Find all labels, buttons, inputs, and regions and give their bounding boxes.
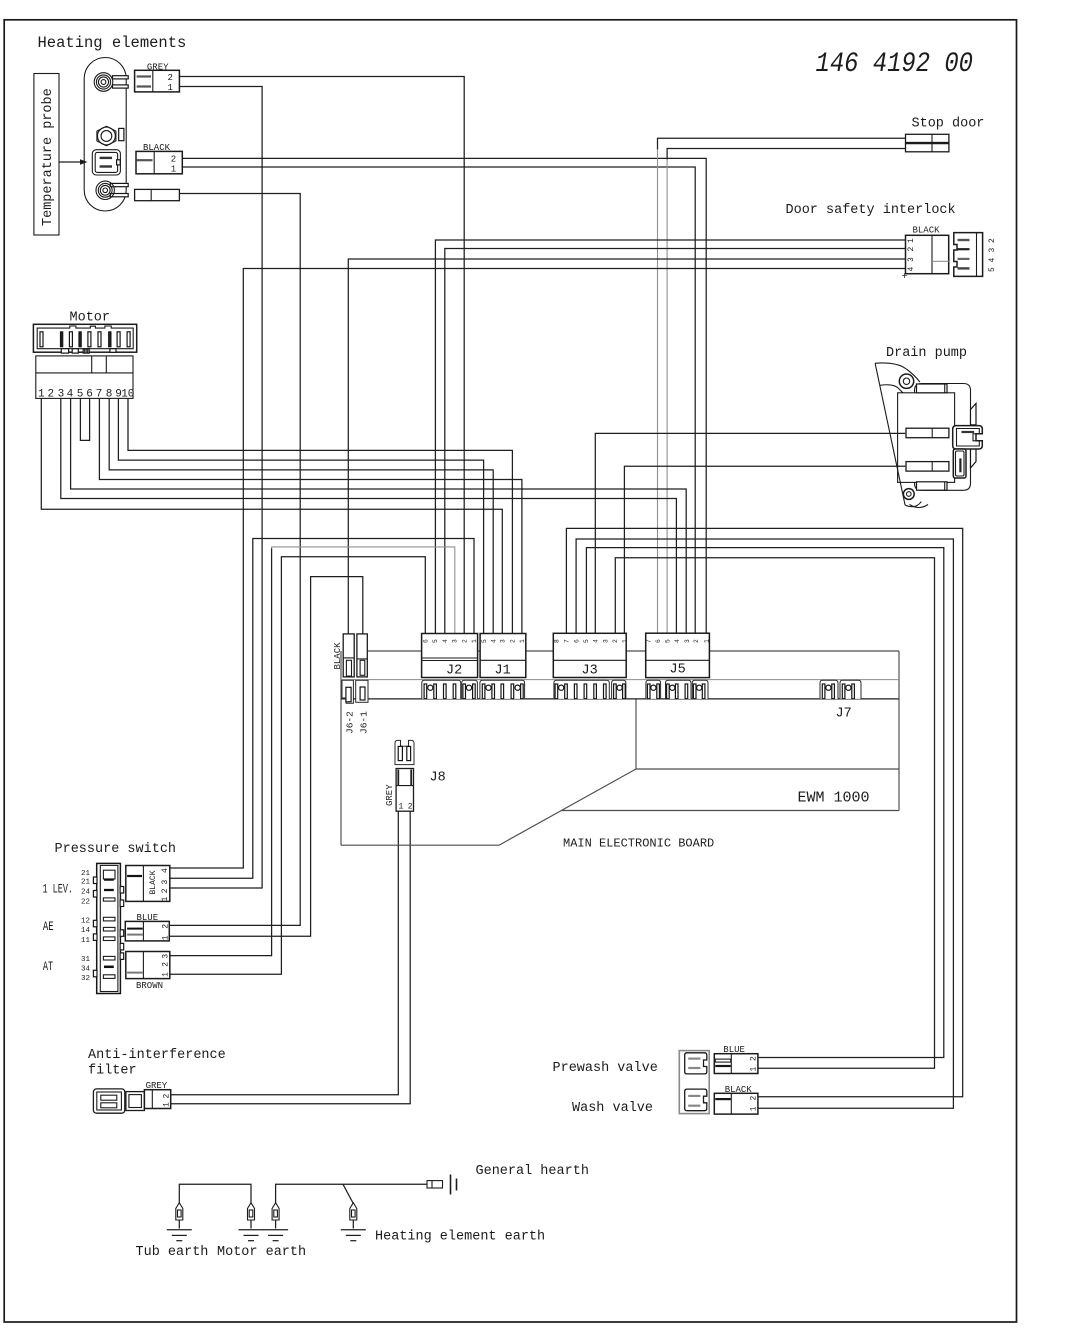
svg-text:2: 2 <box>750 1056 759 1061</box>
svg-text:22: 22 <box>81 898 90 906</box>
footprint J6-2 <box>342 680 353 703</box>
filter body <box>93 1089 124 1113</box>
board EWM strip bottom edge <box>561 810 899 812</box>
svg-text:6: 6 <box>86 388 93 400</box>
prewash BLUE connector <box>714 1054 758 1074</box>
svg-text:2: 2 <box>408 803 413 812</box>
svg-text:Motor: Motor <box>70 311 111 326</box>
svg-text:3: 3 <box>684 639 691 643</box>
footprint cluster under J2 right <box>462 680 478 699</box>
svg-text:1: 1 <box>471 639 478 643</box>
svg-text:12: 12 <box>81 917 90 925</box>
footprint cluster under J7 right <box>840 680 861 699</box>
drain pump blade <box>875 363 905 505</box>
wire heating GREY pin1 to pressure switch BLACK pin2 <box>170 87 262 889</box>
wire stop door lower to J5 pin5 <box>667 149 905 161</box>
svg-text:Drain pump: Drain pump <box>886 346 967 361</box>
temperature probe box <box>34 74 59 236</box>
svg-text:2: 2 <box>171 155 176 165</box>
svg-text:1: 1 <box>161 897 170 902</box>
heating connector BLACK <box>136 151 182 173</box>
footprint cluster under J5 middle <box>666 680 692 699</box>
svg-text:4: 4 <box>161 868 170 873</box>
wire motor pin3 to J5 pin4 <box>61 398 677 633</box>
wire J3 pin5 to prewash valve BLUE pin2 <box>586 548 943 1058</box>
svg-text:146 4192 00: 146 4192 00 <box>816 49 974 80</box>
filter middle connector <box>126 1092 144 1111</box>
svg-text:14: 14 <box>81 927 91 935</box>
wire heating BLACK pin1 to J5 pin2 <box>182 167 695 633</box>
svg-text:2: 2 <box>750 1096 759 1101</box>
svg-text:1: 1 <box>750 1106 759 1111</box>
footprint cluster under J1 <box>480 680 525 699</box>
board top edge segments <box>368 650 422 652</box>
general hearth plug <box>427 1181 443 1188</box>
svg-text:J1: J1 <box>495 664 511 679</box>
svg-text:5: 5 <box>432 639 439 643</box>
wire stop door lower vertical grey <box>666 159 668 633</box>
drain pump bottom blade tip <box>905 502 921 507</box>
svg-text:3: 3 <box>162 954 171 959</box>
svg-text:Temperature probe: Temperature probe <box>41 88 56 226</box>
board BLACK connector J6-2 top <box>343 634 354 677</box>
svg-text:1: 1 <box>907 238 916 243</box>
svg-text:1 LEV.: 1 LEV. <box>43 882 74 897</box>
wire motor pins 5-6 jumper loop <box>80 398 89 440</box>
svg-text:34: 34 <box>81 965 91 973</box>
svg-text:4: 4 <box>67 388 74 400</box>
wire door interlock pin2 to J2 pin4 <box>445 249 906 634</box>
svg-text:1: 1 <box>399 803 404 812</box>
wire door interlock pin4 to pressure switch BLACK pin4 <box>170 269 906 869</box>
wire motor pin8 to J1 pin4 <box>109 398 493 633</box>
valve assembly outer shell <box>679 1051 709 1114</box>
motor plug bottom tabs <box>61 349 68 353</box>
earth terminal tub <box>176 1203 183 1220</box>
motor plug pins <box>40 332 43 347</box>
svg-text:1: 1 <box>38 388 45 400</box>
footprint cluster under J5 left <box>646 680 661 699</box>
svg-text:AT: AT <box>43 959 53 974</box>
wire drain pump lower tab to J3 pin1 <box>624 466 905 633</box>
board outline left edge <box>340 651 342 845</box>
wire motor pin10 to J1 pin2 <box>128 398 512 633</box>
wire stop door upper to J5 pin6 <box>658 138 906 150</box>
svg-text:3: 3 <box>602 639 609 643</box>
svg-text:J7: J7 <box>836 707 852 722</box>
drain pump upper tab <box>906 428 949 438</box>
heating top terminal rings <box>94 73 113 92</box>
svg-text:7: 7 <box>646 639 653 643</box>
svg-text:Pressure switch: Pressure switch <box>55 842 177 857</box>
connector J5 <box>646 633 710 677</box>
prewash valve socket <box>685 1053 707 1074</box>
wire door interlock pin1 to J2 pin5 <box>435 240 905 634</box>
diagonal drop to heating element earth terminal <box>343 1184 353 1203</box>
pin row bottom edge <box>341 698 899 700</box>
drain pump top bolt <box>899 374 913 388</box>
svg-text:7: 7 <box>96 388 103 400</box>
pressure switch contact slots <box>103 870 115 879</box>
pressure switch side lugs <box>93 877 97 884</box>
svg-text:2: 2 <box>168 73 173 83</box>
svg-text:5: 5 <box>665 639 672 643</box>
svg-text:1: 1 <box>162 935 171 940</box>
connector J1 <box>480 634 526 678</box>
svg-text:24: 24 <box>81 889 91 897</box>
hex nut <box>97 126 116 146</box>
svg-text:6: 6 <box>655 639 662 643</box>
wire motor pin1 to J1 pin3 <box>41 398 502 633</box>
stop door connector <box>906 134 949 142</box>
svg-text:2: 2 <box>161 888 170 893</box>
drain pump body square <box>898 393 955 483</box>
svg-text:1: 1 <box>519 639 526 643</box>
wire J3 pin6 to wash valve BLACK pin1 <box>576 539 953 1108</box>
pressure BROWN connector <box>126 952 170 979</box>
svg-text:8: 8 <box>106 388 113 400</box>
J8 footprint <box>395 740 414 764</box>
svg-text:General hearth: General hearth <box>476 1164 589 1179</box>
svg-text:6: 6 <box>573 639 580 643</box>
ground symbol motor 2 <box>263 1229 288 1231</box>
svg-text:Wash valve: Wash valve <box>572 1101 653 1116</box>
wash valve socket <box>685 1089 707 1111</box>
footprint cluster under J3 right <box>612 680 626 699</box>
svg-text:5: 5 <box>583 639 590 643</box>
pressure switch body inner <box>100 865 118 991</box>
footprint cluster under J7 left <box>820 680 838 699</box>
temperature probe arrow <box>59 161 81 163</box>
wire heating GREY pin2 to J2 pin2 <box>179 77 464 634</box>
svg-text:1: 1 <box>621 639 628 643</box>
drain pump bottom mounting tab <box>917 482 948 490</box>
svg-text:21: 21 <box>81 870 91 878</box>
svg-text:32: 32 <box>81 975 90 983</box>
ground symbol heating element <box>341 1229 366 1231</box>
svg-text:Prewash valve: Prewash valve <box>553 1061 658 1076</box>
earth terminal motor <box>248 1203 255 1220</box>
svg-text:BLACK: BLACK <box>149 870 158 894</box>
svg-text:10: 10 <box>121 388 134 400</box>
svg-text:4: 4 <box>442 639 449 643</box>
footprint cluster under J2 left <box>422 680 461 699</box>
svg-text:7: 7 <box>564 639 571 643</box>
svg-text:2: 2 <box>693 639 700 643</box>
drain pump top mounting tab <box>917 384 948 393</box>
svg-text:2: 2 <box>988 238 997 243</box>
svg-text:2: 2 <box>48 388 55 400</box>
wire motor pin9 to J1 pin5 <box>118 398 483 633</box>
svg-text:Heating element earth: Heating element earth <box>375 1230 545 1245</box>
earth terminal motor 2 <box>272 1203 279 1220</box>
board outline diagonal <box>499 769 636 845</box>
ground bus motor2-hearth <box>276 1184 427 1203</box>
svg-text:5: 5 <box>481 639 488 643</box>
svg-text:GREY: GREY <box>385 784 395 806</box>
pressure switch body outer <box>97 863 121 993</box>
svg-text:J3: J3 <box>582 664 598 679</box>
J8 GREY connector <box>396 769 413 812</box>
svg-text:J8: J8 <box>430 771 446 786</box>
pressure BLUE connector <box>125 921 169 941</box>
connector J3 <box>553 633 626 677</box>
svg-text:Anti-interference: Anti-interference <box>88 1048 226 1063</box>
svg-text:J6-2: J6-2 <box>345 711 356 734</box>
svg-text:8: 8 <box>554 639 561 643</box>
svg-text:5: 5 <box>988 267 997 272</box>
board EWM strip top edge <box>636 768 899 770</box>
board outline step vertical <box>635 699 637 769</box>
heating earth connector <box>135 189 180 200</box>
svg-text:2: 2 <box>510 639 517 643</box>
svg-text:3: 3 <box>161 880 170 885</box>
svg-text:BLACK: BLACK <box>333 642 343 670</box>
svg-text:1: 1 <box>163 1102 172 1107</box>
svg-text:2: 2 <box>163 1094 172 1099</box>
svg-text:4: 4 <box>674 639 681 643</box>
svg-text:AE: AE <box>43 919 54 934</box>
svg-text:3: 3 <box>907 257 916 262</box>
wire motor pin4 to J5 pin3 <box>71 398 687 633</box>
svg-text:2: 2 <box>461 639 468 643</box>
svg-text:3: 3 <box>500 639 507 643</box>
svg-text:Stop door: Stop door <box>912 117 985 132</box>
wire pressure switch AT pin1 to J2 pin6 <box>170 557 425 975</box>
drain pump connector lower <box>953 449 966 478</box>
footprint cluster under J5 right <box>692 680 708 699</box>
svg-text:21: 21 <box>81 879 91 887</box>
heating bottom terminal rings <box>96 181 114 199</box>
wire heating BLACK pin2 to J5 pin1 <box>182 158 706 633</box>
svg-text:3: 3 <box>58 388 65 400</box>
motor plug inner housing <box>37 326 133 349</box>
svg-text:EWM 1000: EWM 1000 <box>798 790 870 807</box>
pressure BLACK connector <box>126 866 170 902</box>
svg-text:J2: J2 <box>446 664 462 679</box>
drain pump housing frame <box>915 384 971 491</box>
footprint cluster under J3 left <box>554 680 609 699</box>
connector J2 <box>422 634 478 678</box>
board outline right edge <box>898 651 900 811</box>
wire J3 pin7 to wash valve BLACK pin2 <box>566 528 962 1096</box>
wire motor pin7 to J1 pin1 <box>99 398 522 633</box>
svg-text:1: 1 <box>168 83 173 93</box>
wire heating earth tab to pressure switch BLUE pin2 <box>169 194 300 926</box>
heating element oval body <box>84 58 126 212</box>
svg-text:4: 4 <box>988 258 997 263</box>
svg-text:2: 2 <box>907 247 916 252</box>
wash BLACK connector <box>714 1093 758 1114</box>
footprint J6-1 <box>356 680 368 702</box>
pin row top edge <box>341 679 899 681</box>
wire door interlock pin3 to board connector J6-2 <box>348 259 905 634</box>
wire drain pump upper tab to J3 pin4 <box>595 433 905 633</box>
svg-text:Door safety interlock: Door safety interlock <box>786 203 956 218</box>
motor lower connector body <box>36 356 133 399</box>
drain pump right ears <box>971 403 977 425</box>
svg-text:11: 11 <box>81 937 91 945</box>
heating connector GREY <box>135 70 180 92</box>
earth terminal heating element <box>350 1203 357 1220</box>
svg-text:1: 1 <box>703 639 710 643</box>
ground bus tub-motor <box>179 1184 251 1203</box>
svg-text:2: 2 <box>162 924 171 929</box>
svg-text:4: 4 <box>593 639 600 643</box>
svg-text:J6-1: J6-1 <box>358 711 369 734</box>
ground symbol motor <box>239 1229 264 1231</box>
heating top terminal tabs <box>113 76 129 79</box>
interlock socket slots <box>958 239 970 241</box>
svg-text:1: 1 <box>162 972 171 977</box>
board BLACK connector J6-1 top <box>357 634 367 677</box>
svg-text:Tub earth: Tub earth <box>136 1245 209 1260</box>
interlock plug housing <box>906 235 949 273</box>
svg-text:4: 4 <box>907 267 916 272</box>
svg-text:2: 2 <box>612 639 619 643</box>
heating bottom terminal tabs <box>110 183 128 186</box>
svg-text:BLACK: BLACK <box>913 225 941 235</box>
board outline bottom edge <box>341 844 499 846</box>
wire pressure switch BLUE pin1 to board connector J6-1 <box>169 577 362 937</box>
svg-text:J5: J5 <box>670 663 686 678</box>
svg-text:BROWN: BROWN <box>136 981 163 991</box>
motor plug outer housing <box>33 324 136 352</box>
drain pump lower tab <box>906 462 949 472</box>
svg-text:3: 3 <box>988 248 997 253</box>
svg-text:1: 1 <box>171 165 176 175</box>
ground symbol tub <box>167 1229 192 1231</box>
wire pressure switch AT pin3 to J2 pin3 (light) <box>170 548 272 956</box>
svg-text:Heating elements: Heating elements <box>38 34 187 52</box>
svg-text:2: 2 <box>162 962 171 967</box>
wire J3 pin2 to prewash valve BLUE pin1 <box>615 558 934 1069</box>
drain pump bottom bolt <box>903 489 914 500</box>
svg-text:4: 4 <box>490 639 497 643</box>
svg-text:6: 6 <box>423 639 430 643</box>
wire pressure switch BLACK pin3 to J2 pin1 <box>170 539 474 879</box>
wire J8 pin1 to filter GREY pin2 <box>171 811 399 1095</box>
svg-text:5: 5 <box>77 388 84 400</box>
filter GREY connector <box>144 1090 170 1109</box>
svg-text:31: 31 <box>81 956 91 964</box>
interlock socket housing <box>954 233 983 277</box>
svg-text:3: 3 <box>452 639 459 643</box>
svg-text:filter: filter <box>88 1064 137 1079</box>
thermostat body <box>92 150 120 175</box>
svg-text:Motor earth: Motor earth <box>217 1245 306 1260</box>
svg-text:+: + <box>902 271 908 283</box>
wire J8 pin2 to filter GREY pin1 <box>171 811 411 1104</box>
svg-text:MAIN ELECTRONIC BOARD: MAIN ELECTRONIC BOARD <box>563 837 714 851</box>
wire stop door upper vertical grey <box>657 149 659 633</box>
drain pump connector plug <box>953 426 983 449</box>
small tab right of nut <box>119 128 124 140</box>
svg-text:1: 1 <box>750 1067 759 1072</box>
